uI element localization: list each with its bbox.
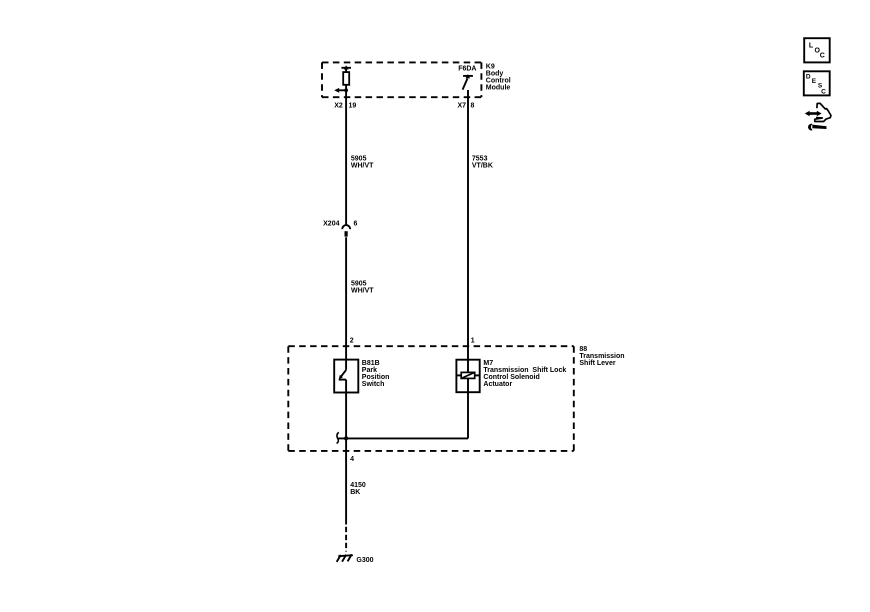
svg-text:1: 1 [471, 337, 475, 344]
svg-text:VT/BK: VT/BK [472, 163, 493, 170]
svg-text:BK: BK [350, 489, 360, 496]
svg-text:4: 4 [350, 456, 354, 463]
svg-text:WH/VT: WH/VT [351, 163, 374, 170]
svg-text:Control: Control [486, 78, 511, 85]
svg-text:Position: Position [362, 374, 390, 381]
svg-text:Module: Module [486, 85, 511, 92]
svg-text:M7: M7 [483, 360, 493, 367]
svg-text:X2: X2 [334, 103, 343, 110]
svg-text:E: E [812, 78, 817, 85]
svg-text:5905: 5905 [351, 156, 367, 163]
svg-text:2: 2 [350, 337, 354, 344]
svg-text:88: 88 [579, 346, 587, 353]
svg-text:Shift Lever: Shift Lever [579, 360, 615, 367]
svg-text:G300: G300 [356, 557, 373, 564]
svg-text:L: L [809, 42, 814, 49]
svg-text:Transmission: Transmission [579, 353, 624, 360]
svg-text:Park: Park [362, 367, 377, 374]
svg-text:6: 6 [354, 221, 358, 228]
svg-text:X204: X204 [323, 221, 339, 228]
svg-text:Actuator: Actuator [483, 381, 512, 388]
svg-text:Switch: Switch [362, 381, 385, 388]
svg-text:K9: K9 [486, 64, 495, 71]
svg-text:C: C [820, 53, 825, 60]
svg-text:5905: 5905 [351, 280, 367, 287]
svg-text:Control Solenoid: Control Solenoid [483, 374, 539, 381]
svg-text:B81B: B81B [362, 360, 380, 367]
svg-text:X7: X7 [457, 103, 466, 110]
svg-text:Transmission Shift Lock: Transmission Shift Lock [483, 367, 566, 374]
svg-text:F6DA: F6DA [458, 66, 476, 73]
svg-text:7553: 7553 [472, 156, 488, 163]
svg-text:C: C [821, 88, 826, 95]
svg-text:D: D [806, 74, 811, 81]
svg-text:4150: 4150 [350, 482, 366, 489]
svg-text:8: 8 [471, 103, 475, 110]
svg-text:Body: Body [486, 71, 504, 78]
svg-text:WH/VT: WH/VT [351, 287, 374, 294]
svg-text:19: 19 [349, 103, 357, 110]
